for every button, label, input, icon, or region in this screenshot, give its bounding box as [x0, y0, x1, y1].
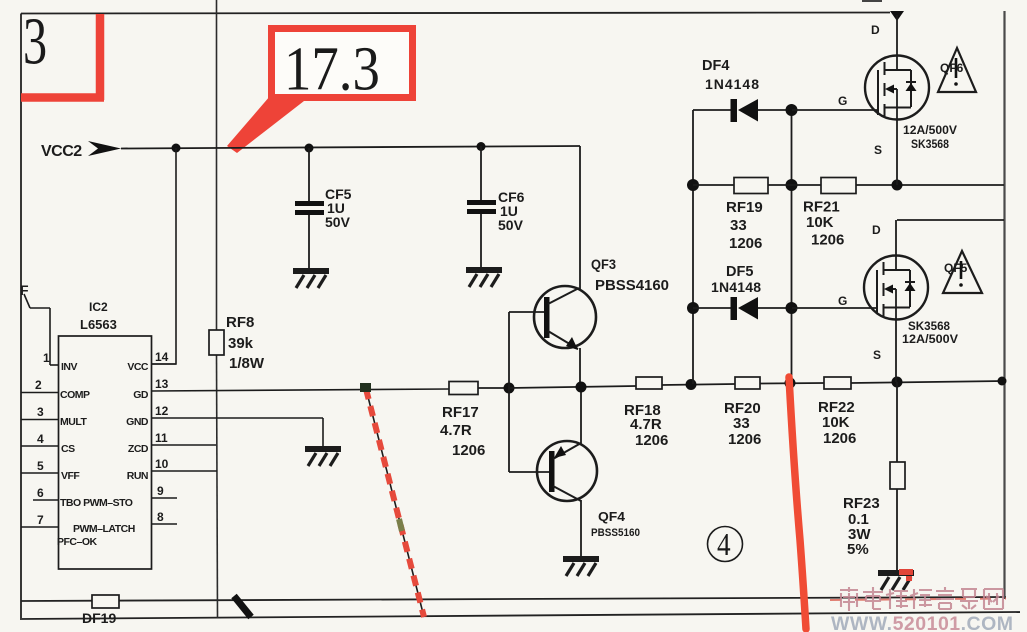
svg-text:QF4: QF4 [598, 510, 625, 524]
svg-text:QF5: QF5 [944, 261, 968, 275]
svg-text:33: 33 [730, 217, 747, 234]
svg-text:DF5: DF5 [726, 264, 753, 280]
svg-text:12A/500V: 12A/500V [902, 332, 958, 346]
svg-text:D: D [872, 223, 881, 237]
svg-text:1206: 1206 [635, 432, 668, 449]
svg-text:12A/500V: 12A/500V [903, 123, 957, 137]
svg-text:13: 13 [155, 377, 169, 391]
svg-text:1206: 1206 [728, 431, 761, 448]
svg-text:S: S [873, 348, 881, 362]
svg-text:5: 5 [37, 459, 44, 473]
svg-text:RUN: RUN [127, 470, 148, 482]
svg-text:SK3568: SK3568 [911, 137, 949, 151]
svg-text:PBSS5160: PBSS5160 [591, 527, 640, 539]
svg-text:IC2: IC2 [89, 300, 108, 314]
svg-text:DF4: DF4 [702, 58, 729, 74]
svg-text:RF17: RF17 [442, 404, 479, 421]
svg-text:RF23: RF23 [843, 495, 880, 512]
svg-text:D: D [871, 23, 880, 37]
svg-text:7: 7 [37, 513, 44, 527]
svg-text:10: 10 [155, 457, 169, 471]
svg-text:1N4148: 1N4148 [711, 279, 761, 295]
svg-text:SK3568: SK3568 [908, 319, 950, 333]
svg-text:WWW.520101.COM: WWW.520101.COM [831, 613, 1014, 632]
svg-text:17.3: 17.3 [284, 33, 380, 103]
svg-text:50V: 50V [325, 214, 351, 230]
svg-text:ZCD: ZCD [128, 443, 149, 455]
svg-text:G: G [838, 294, 847, 308]
svg-text:1206: 1206 [729, 235, 762, 252]
svg-text:11: 11 [155, 431, 168, 445]
svg-text:1/8W: 1/8W [229, 355, 265, 372]
svg-text:TBO PWM–STO: TBO PWM–STO [60, 497, 133, 509]
svg-text:GND: GND [126, 416, 149, 428]
svg-text:MULT: MULT [60, 416, 87, 428]
svg-text:QF3: QF3 [591, 256, 616, 272]
svg-text:COMP: COMP [60, 389, 90, 401]
svg-text:L6563: L6563 [80, 317, 117, 332]
svg-text:VCC2: VCC2 [41, 143, 82, 160]
svg-text:3: 3 [23, 4, 47, 79]
svg-text:4: 4 [37, 432, 44, 446]
svg-text:VFF: VFF [61, 470, 80, 482]
svg-text:1206: 1206 [823, 430, 856, 447]
svg-text:1206: 1206 [811, 232, 844, 249]
svg-text:CS: CS [61, 443, 75, 455]
svg-text:RF19: RF19 [726, 199, 763, 216]
svg-text:3: 3 [37, 405, 44, 419]
svg-text:RF8: RF8 [226, 314, 254, 331]
svg-text:VCC: VCC [127, 361, 149, 373]
svg-text:14: 14 [155, 350, 169, 364]
svg-text:9: 9 [157, 484, 164, 498]
svg-text:INV: INV [61, 361, 78, 373]
svg-text:PWM–LATCH: PWM–LATCH [73, 523, 135, 535]
svg-text:F: F [20, 282, 29, 298]
svg-text:4.7R: 4.7R [440, 422, 472, 439]
svg-text:2: 2 [35, 378, 42, 392]
svg-text:1206: 1206 [452, 442, 485, 459]
svg-text:10K: 10K [806, 214, 834, 231]
svg-text:10K: 10K [822, 414, 850, 431]
svg-text:39k: 39k [228, 335, 254, 352]
svg-text:50V: 50V [498, 217, 524, 233]
svg-text:S: S [874, 143, 882, 157]
svg-text:1: 1 [43, 351, 50, 365]
svg-text:33: 33 [733, 415, 750, 432]
svg-text:G: G [838, 94, 847, 108]
svg-text:8: 8 [157, 510, 164, 524]
svg-text:RF21: RF21 [803, 199, 840, 216]
svg-text:QF6: QF6 [940, 61, 964, 75]
svg-text:6: 6 [37, 486, 44, 500]
svg-text:1N4148: 1N4148 [705, 76, 759, 92]
svg-text:4.7R: 4.7R [630, 416, 662, 433]
svg-text:PBSS4160: PBSS4160 [595, 277, 669, 294]
svg-text:GD: GD [133, 389, 149, 401]
svg-text:12: 12 [155, 404, 169, 418]
svg-text:5%: 5% [847, 541, 869, 558]
svg-text:4: 4 [717, 528, 731, 562]
svg-text:PFC–OK: PFC–OK [57, 536, 98, 548]
svg-text:DF19: DF19 [82, 610, 116, 626]
